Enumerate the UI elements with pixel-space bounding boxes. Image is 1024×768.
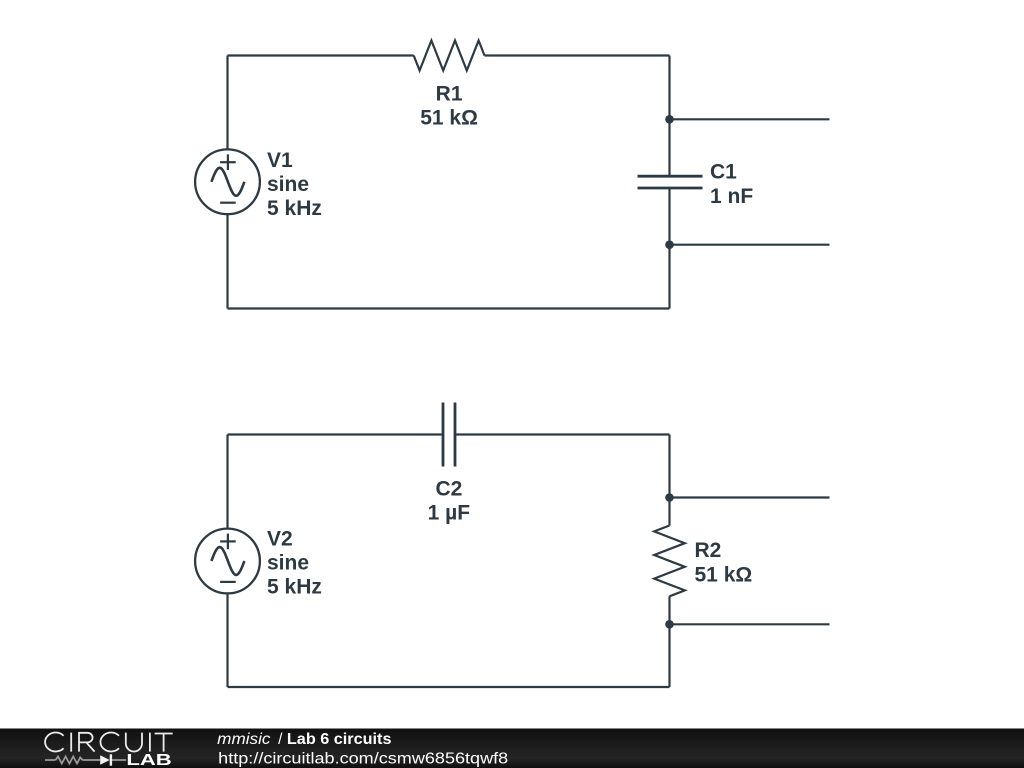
wire C2 to top-right corner bbox=[455, 433, 670, 435]
svg-text:C1: C1 bbox=[710, 161, 737, 184]
svg-text:R1: R1 bbox=[436, 83, 463, 106]
svg-text:51 kΩ: 51 kΩ bbox=[420, 107, 478, 130]
wire right rail lower (R2 to bottom-right corner) bbox=[668, 596, 670, 687]
wire right rail upper (corner to C1 top plate) bbox=[668, 56, 670, 177]
wire output top (node A) bbox=[670, 118, 830, 120]
svg-text:/: / bbox=[278, 731, 283, 748]
svg-text:1 nF: 1 nF bbox=[710, 185, 753, 208]
wire top-left to R1 bbox=[228, 54, 414, 56]
svg-text:5 kHz: 5 kHz bbox=[267, 576, 322, 599]
voltage source V1 bbox=[195, 149, 260, 214]
logo resistor zigzag bbox=[56, 756, 83, 763]
wire top-left to C2 bbox=[228, 433, 444, 435]
svg-text:C2: C2 bbox=[435, 478, 462, 501]
junction node C bbox=[665, 493, 674, 502]
svg-text:5 kHz: 5 kHz bbox=[267, 197, 322, 220]
svg-text:mmisic: mmisic bbox=[217, 731, 271, 748]
capacitor C1 bbox=[638, 176, 703, 188]
svg-text:1 µF: 1 µF bbox=[428, 502, 471, 525]
footer bar bbox=[0, 729, 1024, 768]
wire V2 top to top-left corner bbox=[226, 435, 228, 530]
logo schematic: wire bbox=[45, 756, 126, 763]
junction node B bbox=[665, 240, 674, 249]
svg-text:sine: sine bbox=[267, 173, 309, 196]
voltage source V2 bbox=[195, 529, 260, 594]
wire R1 to top-right corner bbox=[485, 54, 670, 56]
wire right rail upper (corner to R2) bbox=[668, 435, 670, 526]
wire bottom of circuit 2 bbox=[228, 686, 670, 688]
svg-text:51 kΩ: 51 kΩ bbox=[695, 563, 753, 586]
wire output bottom (node B) bbox=[670, 244, 830, 246]
wire left rail lower to V2 bbox=[226, 593, 228, 687]
svg-text:R2: R2 bbox=[695, 539, 722, 562]
wire output bottom (node D) bbox=[670, 623, 830, 625]
svg-text:LAB: LAB bbox=[126, 752, 171, 768]
svg-text:sine: sine bbox=[267, 552, 309, 575]
svg-text:V2: V2 bbox=[267, 528, 293, 551]
capacitor C2 bbox=[443, 403, 455, 467]
junction node A bbox=[665, 115, 674, 124]
wire bottom of circuit 1 bbox=[228, 307, 670, 309]
svg-text:Lab 6 circuits: Lab 6 circuits bbox=[287, 731, 392, 748]
wire left rail lower to V1 bbox=[226, 214, 228, 309]
CircuitLab logo wordmark CIRCUIT bbox=[45, 733, 173, 752]
resistor R2 bbox=[654, 526, 685, 597]
wire output top (node C) bbox=[670, 496, 830, 498]
wire V1 top to top-left corner bbox=[226, 56, 228, 150]
logo diode bbox=[100, 755, 110, 765]
junction node D bbox=[665, 620, 674, 629]
resistor R1 bbox=[414, 41, 485, 71]
wire right rail lower (C1 bottom plate to bottom-right corner) bbox=[668, 188, 670, 309]
svg-text:http://circuitlab.com/csmw6856: http://circuitlab.com/csmw6856tqwf8 bbox=[218, 750, 508, 767]
svg-text:V1: V1 bbox=[267, 149, 293, 172]
